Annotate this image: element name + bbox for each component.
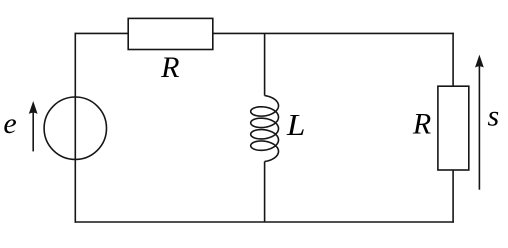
wire: left branch vertical (through source) [74,33,76,223]
arrow of source e [29,101,38,151]
wire: middle branch lower segment [264,162,266,223]
resistor R2 (right, vertical) [438,86,469,170]
wire: top rail [75,32,454,34]
svg-text:R: R [412,107,431,140]
svg-text:s: s [487,99,499,132]
wire: bottom rail [75,221,454,223]
arrow s (output voltage) [475,55,484,190]
wire: middle branch upper segment [264,33,266,95]
wire: right branch vertical [452,33,454,223]
svg-text:R: R [160,51,179,84]
svg-text:L: L [286,107,306,142]
voltage source e (circle) [44,97,106,159]
resistor R1 (top, horizontal) [128,18,213,49]
inductor L (coil) [251,96,279,162]
svg-text:e: e [3,107,16,140]
